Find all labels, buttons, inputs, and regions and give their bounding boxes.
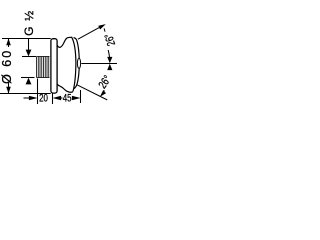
svg-text:26°: 26° [97, 74, 114, 92]
svg-text:G ½: G ½ [22, 10, 36, 36]
svg-text:45: 45 [63, 92, 72, 104]
svg-text:26°: 26° [103, 32, 118, 47]
svg-text:20: 20 [39, 92, 48, 104]
svg-text:Ø 60: Ø 60 [0, 49, 14, 84]
